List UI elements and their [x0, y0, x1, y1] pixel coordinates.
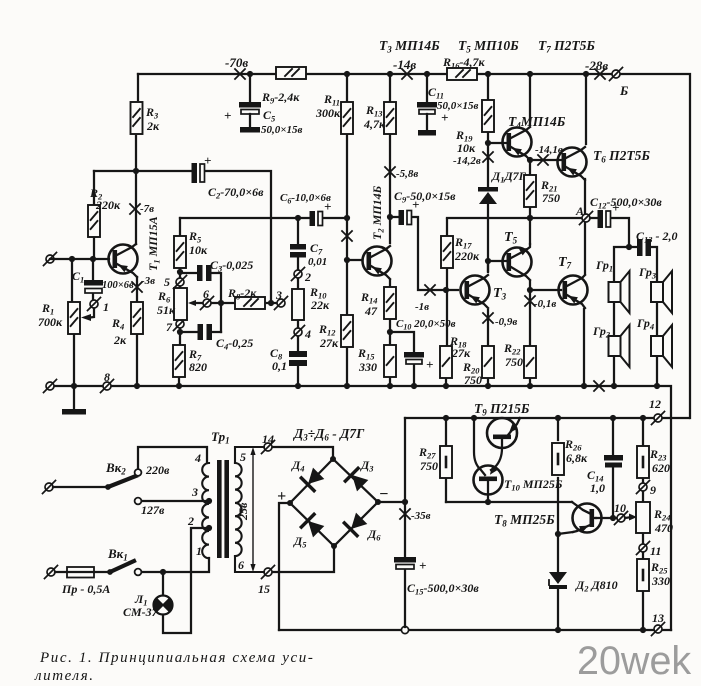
wire T3 collector column [487, 260, 489, 272]
resistor R21 [524, 175, 536, 207]
svg-text:10: 10 [614, 501, 626, 515]
svg-text:51к: 51к [157, 303, 176, 317]
capacitor C2 [192, 163, 205, 183]
resistor R18 [440, 346, 452, 378]
resistor R24 [636, 502, 650, 533]
svg-text:Т3 МП14Б: Т3 МП14Б [379, 38, 440, 55]
capacitor C13 [637, 239, 651, 256]
resistor R8 [235, 297, 265, 309]
svg-text:27к: 27к [319, 336, 339, 350]
wire bias line R17 to A [447, 215, 584, 221]
terminal 12 [652, 412, 665, 425]
node 5 terminal [174, 276, 187, 289]
svg-text:C1: C1 [72, 269, 84, 285]
svg-text:15: 15 [258, 582, 270, 596]
capacitor C10 [404, 352, 424, 364]
svg-text:2: 2 [187, 514, 194, 528]
wire T10 drive line [446, 499, 589, 513]
capacitor C7 [290, 244, 306, 258]
wire T1 emitter to R4 [132, 277, 142, 386]
svg-text:1,0: 1,0 [590, 481, 605, 495]
svg-text:3: 3 [275, 288, 282, 302]
wire C10 branch [390, 332, 414, 386]
svg-text:7: 7 [166, 320, 173, 334]
svg-text:Т6 П2Т5Б: Т6 П2Т5Б [593, 148, 650, 165]
transistor T10 [474, 465, 503, 500]
svg-text:Т5 МП10Б: Т5 МП10Б [458, 38, 519, 55]
wire R1 branch [72, 259, 74, 386]
svg-text:750: 750 [505, 355, 523, 369]
wire bridge diamond [287, 456, 381, 549]
capacitor C14 [604, 455, 623, 468]
transistor T8 [573, 504, 602, 533]
capacitor C12 [598, 210, 611, 228]
svg-text:6: 6 [238, 558, 244, 572]
resistor R4 [131, 302, 143, 334]
svg-text:300к: 300к [315, 106, 341, 120]
node 3 terminal [275, 297, 288, 310]
svg-text:12: 12 [649, 397, 661, 411]
capacitor C11 [417, 74, 437, 136]
svg-text:1: 1 [196, 544, 202, 558]
transformer Tr1 primary winding [202, 463, 209, 558]
svg-text:-1в: -1в [415, 301, 429, 313]
wire C9 coupling [390, 217, 458, 295]
speaker Gr4 [651, 325, 672, 367]
svg-text:220в: 220в [145, 463, 170, 477]
diode D5 [301, 514, 325, 538]
wire lamp top [162, 572, 164, 596]
svg-text:C9-50,0×15в: C9-50,0×15в [394, 189, 456, 205]
svg-text:Гр4: Гр4 [636, 316, 654, 332]
svg-text:+: + [277, 488, 286, 505]
svg-text:Т8 МП25Б: Т8 МП25Б [494, 512, 555, 529]
svg-text:Вк2: Вк2 [105, 460, 126, 477]
svg-text:10к: 10к [457, 141, 476, 155]
capacitor C3 [197, 265, 212, 281]
wire T7 emitter [583, 309, 585, 386]
svg-text:Рис. 1. Принципиальная схема у: Рис. 1. Принципиальная схема уси- [39, 650, 314, 666]
svg-text:-0,1в: -0,1в [534, 298, 556, 310]
svg-text:+: + [419, 558, 426, 573]
transistor T6 [558, 147, 587, 180]
svg-text:4,7к: 4,7к [363, 117, 386, 131]
wire R2 C2 node [94, 171, 192, 259]
diode D3 [345, 468, 369, 492]
wire node10 wiper arrow to R24 [625, 514, 637, 521]
svg-text:700к: 700к [38, 315, 63, 329]
svg-text:6: 6 [203, 287, 209, 301]
transistor T4 [503, 127, 532, 160]
node A terminal [580, 212, 593, 225]
svg-text:А: А [575, 204, 584, 218]
svg-text:27к: 27к [451, 346, 471, 360]
wire R23 R24 R25 chain [642, 418, 644, 630]
wire -35V rail [405, 415, 689, 421]
svg-text:C11: C11 [428, 85, 444, 101]
wire R26 D2 column [555, 418, 561, 630]
resistor R17 [441, 236, 453, 268]
svg-text:13: 13 [652, 611, 664, 625]
terminal input top [44, 253, 57, 266]
capacitor C9 [399, 210, 412, 225]
svg-text:100×6в: 100×6в [102, 280, 134, 291]
svg-text:R16-4,7к: R16-4,7к [442, 55, 486, 71]
wire T2 emitter R14 R15 [387, 280, 393, 386]
wire C3 bridge [180, 273, 224, 332]
capacitor C8 [289, 351, 307, 366]
capacitor C15 [394, 557, 416, 569]
wire C7 R10 C8 chain [297, 218, 299, 386]
svg-text:750: 750 [420, 459, 438, 473]
transistor T1 [109, 244, 138, 277]
terminal Б [610, 68, 623, 81]
wire T8 emitter [558, 532, 573, 534]
node 9 terminal [637, 481, 650, 494]
svg-text:25в: 25в [236, 502, 250, 521]
wire Vk1 to primary pin1 [142, 558, 209, 575]
capacitor C4 [198, 324, 213, 340]
svg-text:Т3: Т3 [493, 286, 507, 302]
svg-text:Д3: Д3 [360, 458, 374, 474]
wire R21 bottom T5 emitter [527, 206, 533, 244]
speaker Gr2 [609, 325, 630, 367]
wire input to T1 base [50, 256, 109, 262]
wire C2 to node 3 [205, 171, 271, 303]
svg-text:330: 330 [651, 574, 670, 588]
terminal mains left bottom [45, 566, 58, 579]
resistor R14 [384, 287, 396, 319]
svg-text:Т5: Т5 [504, 230, 518, 246]
svg-text:2к: 2к [146, 119, 160, 133]
svg-text:220к: 220к [95, 198, 121, 212]
svg-text:C10 20,0×50в: C10 20,0×50в [396, 318, 456, 332]
transformer core [217, 460, 229, 558]
resistor R27 [440, 446, 452, 478]
svg-text:Гр2: Гр2 [592, 324, 611, 340]
wire bridge top AC [272, 447, 333, 459]
capacitor C5 [239, 74, 261, 133]
wire bridge output minus [378, 501, 405, 503]
svg-text:Д6: Д6 [367, 527, 381, 543]
svg-text:14: 14 [262, 432, 274, 446]
resistor R23 [637, 446, 649, 478]
svg-text:8: 8 [104, 370, 110, 384]
svg-text:+: + [324, 199, 331, 214]
svg-text:Гр1: Гр1 [595, 258, 613, 274]
svg-text:50,0×15в: 50,0×15в [261, 124, 303, 136]
svg-text:-28в: -28в [585, 58, 608, 73]
wire mains 127 tap [142, 498, 212, 504]
wire T5 base [488, 260, 509, 262]
wire R19 D1 T5base column [483, 74, 493, 271]
svg-text:Т9 П215Б: Т9 П215Б [474, 401, 530, 418]
wire C1 to R1 wiper [81, 259, 94, 321]
wire C13 to speakers Gr3 Gr4 [629, 247, 657, 386]
wire bridge output plus [279, 503, 290, 630]
transformer secondary winding [235, 447, 264, 572]
svg-text:-3в: -3в [141, 275, 155, 287]
svg-text:Д2 Д810: Д2 Д810 [575, 578, 618, 594]
svg-text:11: 11 [650, 544, 661, 558]
switch Vk2 [105, 469, 141, 490]
capacitor C6 [310, 211, 323, 226]
svg-text:-14,1в: -14,1в [535, 144, 563, 156]
wire R17 R18 column [446, 219, 447, 386]
wire C4 bridge [180, 331, 221, 333]
svg-text:-70в: -70в [225, 55, 248, 70]
svg-text:Д4: Д4 [291, 458, 304, 474]
svg-text:750: 750 [542, 191, 560, 205]
wire R5 R6 R7 chain [177, 218, 183, 386]
svg-text:330: 330 [358, 360, 377, 374]
transistor T3 [461, 275, 490, 308]
node 1 terminal [88, 298, 101, 311]
svg-text:Т7: Т7 [558, 255, 572, 271]
wire primary tap2 to lamp [163, 525, 212, 633]
svg-text:20wek: 20wek [577, 639, 691, 683]
svg-text:C7: C7 [310, 241, 323, 257]
svg-text:СМ-37: СМ-37 [123, 605, 159, 619]
svg-text:C2-70,0×6в: C2-70,0×6в [208, 185, 264, 201]
wire mains 220 tap [138, 447, 207, 469]
svg-text:Гр3: Гр3 [638, 265, 657, 281]
terminal input bottom [44, 380, 57, 393]
svg-text:Вк1: Вк1 [107, 546, 128, 563]
speaker Gr3 [651, 271, 672, 313]
svg-text:470: 470 [654, 521, 673, 535]
terminal 13 [652, 623, 665, 636]
lamp L1 [154, 596, 173, 615]
wire amplifier ground rail [50, 381, 671, 630]
svg-text:2: 2 [304, 270, 311, 284]
svg-text:C4-0,25: C4-0,25 [216, 336, 253, 352]
svg-text:R4: R4 [111, 316, 124, 332]
svg-text:9: 9 [650, 483, 656, 497]
svg-text:Д1Д7Г: Д1Д7Г [491, 169, 527, 185]
resistor R20 [482, 346, 494, 378]
transistor T2 [363, 246, 392, 279]
resistor R3 [131, 102, 143, 134]
wire T6 collector [585, 74, 587, 144]
svg-text:5: 5 [164, 275, 170, 289]
resistor R9 [276, 67, 306, 79]
svg-text:750: 750 [464, 373, 482, 387]
wire T2 base [347, 259, 362, 261]
wire bottom ground rail [279, 626, 671, 633]
resistor R2 [88, 205, 100, 237]
wire C14 branch [612, 418, 614, 518]
svg-text:Т10 МП25Б: Т10 МП25Б [504, 477, 563, 493]
svg-text:6,8к: 6,8к [566, 451, 588, 465]
svg-text:+: + [426, 357, 433, 372]
wire T10 base from rail [474, 418, 485, 475]
speaker Gr1 [609, 271, 630, 313]
contact 127v [135, 498, 142, 505]
svg-text:2к: 2к [113, 333, 127, 347]
node 7 terminal [174, 318, 187, 331]
resistor R13 [384, 102, 396, 134]
resistor R16 [447, 68, 477, 80]
svg-text:-14в: -14в [393, 57, 416, 72]
svg-text:+: + [412, 197, 419, 212]
node 11 terminal [637, 542, 650, 555]
svg-text:C5: C5 [263, 108, 276, 124]
wire to switch Vk2 [53, 486, 108, 488]
svg-text:-7в: -7в [140, 203, 154, 215]
wire C12 to speakers [590, 218, 632, 386]
svg-text:Т4МП14Б: Т4МП14Б [508, 114, 566, 131]
secondary 25v measure arrow [250, 447, 255, 572]
resistor R11 [341, 102, 353, 134]
diode D6 [344, 512, 368, 536]
svg-text:5: 5 [240, 450, 246, 464]
svg-text:4: 4 [304, 327, 311, 341]
svg-text:Д5: Д5 [293, 534, 307, 550]
capacitor C1 [84, 280, 103, 293]
resistor R6 [174, 288, 187, 320]
node 4 terminal [292, 326, 305, 339]
svg-text:-35в: -35в [411, 510, 431, 522]
resistor R19 [482, 100, 494, 132]
svg-text:22к: 22к [310, 298, 330, 312]
diode D2 zener [549, 572, 567, 589]
transistor T9 [487, 418, 520, 470]
svg-text:C13 - 2,0: C13 - 2,0 [636, 229, 678, 245]
terminal mains left top [43, 481, 56, 494]
wire node 6 row [188, 300, 277, 306]
resistor R26 [552, 443, 564, 475]
svg-text:4: 4 [194, 451, 201, 465]
wire T4 collector [529, 74, 531, 125]
svg-text:+: + [612, 200, 619, 215]
svg-text:C3-0,025: C3-0,025 [210, 258, 253, 274]
wire T4 emitter T6 base R21 [527, 155, 562, 177]
svg-text:-0,9в: -0,9в [495, 316, 517, 328]
svg-text:47: 47 [364, 304, 378, 318]
wire T5 collector T7 base R22 [525, 281, 561, 386]
resistor R15 [384, 345, 396, 377]
wire R27 branch [445, 418, 447, 502]
transistor T5 [503, 244, 532, 280]
svg-text:820: 820 [189, 360, 207, 374]
caption [34, 650, 314, 684]
svg-text:Д3÷Д6 - Д7Г: Д3÷Д6 - Д7Г [292, 426, 365, 443]
wire R11 R12 column [342, 74, 352, 386]
svg-text:0,1: 0,1 [272, 359, 287, 373]
switch Vk1 [107, 561, 141, 575]
wire -35V feed column C15 [400, 418, 410, 627]
node 6 terminal [201, 297, 214, 310]
svg-text:лителя.: лителя. [34, 668, 95, 684]
wire T3 emitter R20 [483, 310, 493, 386]
resistor R25 [637, 559, 649, 591]
node 10 terminal [615, 512, 628, 525]
terminal 14 [262, 441, 275, 454]
terminal 15 [262, 566, 275, 579]
svg-text:+: + [441, 110, 448, 125]
wire bridge bottom AC [272, 546, 334, 572]
svg-text:C15-500,0×30в: C15-500,0×30в [407, 581, 479, 597]
wire R3 T1 collector branch [130, 74, 140, 244]
svg-text:Пр - 0,5А: Пр - 0,5А [61, 582, 110, 596]
resistor R1 [68, 302, 80, 334]
wire T8 collector to node 10 [596, 515, 617, 521]
wire T6 emitter to A to T7 collector [584, 179, 586, 274]
diode D1 [478, 187, 498, 204]
resistor R12 [341, 315, 353, 347]
svg-text:10к: 10к [189, 243, 208, 257]
svg-text:3: 3 [191, 485, 198, 499]
svg-text:R8-2к: R8-2к [227, 286, 257, 302]
svg-text:-5,8в: -5,8в [396, 168, 418, 180]
svg-text:-14,2в: -14,2в [453, 155, 481, 167]
svg-text:127в: 127в [141, 503, 165, 517]
svg-text:1: 1 [103, 300, 109, 314]
resistor R22 [524, 346, 536, 378]
svg-text:R9-2,4к: R9-2,4к [261, 90, 300, 106]
svg-text:Б: Б [619, 83, 628, 98]
wire top supply rail [138, 69, 690, 418]
wire T4 base [488, 142, 507, 144]
terminal 8 [101, 380, 114, 393]
svg-text:620: 620 [652, 461, 670, 475]
fuse Pr [55, 567, 110, 578]
transistor T7 [559, 275, 588, 308]
svg-text:Т7 П2Т5Б: Т7 П2Т5Б [538, 38, 595, 55]
svg-text:C12-500,0×30в: C12-500,0×30в [590, 195, 662, 211]
svg-text:−: − [379, 486, 389, 503]
wire feedback node line [180, 215, 350, 221]
svg-text:220к: 220к [454, 249, 480, 263]
node 2 terminal [292, 268, 305, 281]
resistor R10 [292, 289, 304, 320]
svg-text:Т2 МП14Б: Т2 МП14Б [370, 185, 386, 240]
diode D4 [301, 467, 325, 491]
svg-text:Тр1: Тр1 [211, 429, 230, 446]
ground [62, 386, 86, 415]
svg-text:0,01: 0,01 [308, 256, 327, 268]
svg-text:Т1 МП15А: Т1 МП15А [146, 216, 162, 271]
resistor R7 [173, 345, 185, 377]
wire R13 T2 collector [385, 74, 395, 243]
resistor R5 [174, 236, 186, 268]
svg-text:+: + [224, 108, 231, 123]
svg-text:+: + [204, 153, 211, 168]
